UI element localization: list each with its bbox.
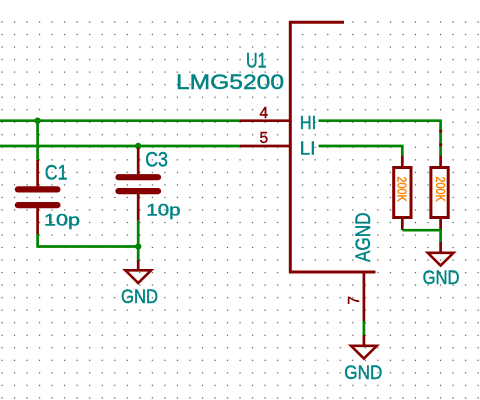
capacitor C1 xyxy=(18,121,58,235)
ground symbol (center) xyxy=(125,260,151,283)
wire net-B horizontal (to pin 5) xyxy=(0,145,240,148)
node junction A xyxy=(34,118,40,124)
wire R1 bottom to R2 bottom to gnd xyxy=(402,230,440,242)
wire LI to R1 top xyxy=(319,146,403,156)
capacitor C3 xyxy=(119,148,159,221)
wire C1 bottom to C3/GND node xyxy=(38,234,139,247)
node junction C xyxy=(135,243,141,249)
svg-text:4: 4 xyxy=(260,105,269,122)
wire C3 bottom down to gnd node xyxy=(137,221,140,261)
op-amp/IC body outline U1 (partial box) xyxy=(290,22,375,272)
wire net-A horizontal (to pin 4) xyxy=(0,119,240,122)
ground symbol (bottom) xyxy=(351,335,377,359)
artifact dash 2 on HI drop wire xyxy=(439,143,442,146)
pin 4 lead xyxy=(240,119,290,122)
svg-text:200K: 200K xyxy=(394,177,408,203)
svg-text:GND: GND xyxy=(423,268,460,289)
svg-text:C1: C1 xyxy=(45,162,68,185)
svg-text:200K: 200K xyxy=(433,177,447,203)
svg-text:10p: 10p xyxy=(146,202,180,220)
svg-text:C3: C3 xyxy=(145,148,168,171)
svg-text:LMG5200: LMG5200 xyxy=(176,71,284,94)
node junction B xyxy=(135,143,141,149)
pin 5 lead xyxy=(240,145,290,148)
svg-text:7: 7 xyxy=(346,296,363,305)
wire pin7 to gnd xyxy=(363,321,366,336)
svg-text:AGND: AGND xyxy=(352,213,375,263)
resistor R1 200K xyxy=(394,156,411,231)
svg-text:LI: LI xyxy=(300,137,316,158)
svg-text:GND: GND xyxy=(344,363,382,384)
svg-text:5: 5 xyxy=(260,130,269,147)
resistor R2 200K xyxy=(431,156,448,231)
pin 7 lead xyxy=(363,273,366,321)
ground symbol (right) xyxy=(428,242,454,266)
svg-text:GND: GND xyxy=(121,287,158,308)
wire HI to R2 top xyxy=(319,121,441,156)
svg-text:U1: U1 xyxy=(246,50,267,73)
svg-text:10p: 10p xyxy=(44,212,80,230)
svg-text:HI: HI xyxy=(300,112,316,133)
artifact dash 1 on HI drop wire xyxy=(439,130,442,133)
